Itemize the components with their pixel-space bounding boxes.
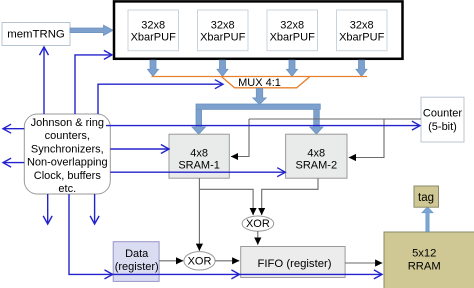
wire: data register to XOR X2 xyxy=(159,260,183,262)
svg-text:SRAM-2: SRAM-2 xyxy=(296,159,338,171)
svg-text:counters,: counters, xyxy=(45,130,90,142)
svg-text:XOR: XOR xyxy=(188,256,212,268)
wire: johnson to XbarPUF array xyxy=(75,55,112,114)
svg-text:etc.: etc. xyxy=(58,183,76,195)
XbarPUF U2 xyxy=(198,10,249,51)
wire: johnson down output A xyxy=(47,194,49,224)
svg-text:XbarPUF: XbarPUF xyxy=(131,31,177,43)
svg-text:XbarPUF: XbarPUF xyxy=(200,31,246,43)
SRAM-2 box xyxy=(286,134,347,178)
svg-text:Clock, buffers: Clock, buffers xyxy=(34,170,102,182)
svg-text:XOR: XOR xyxy=(246,218,270,230)
svg-text:Synchronizers,: Synchronizers, xyxy=(31,143,104,155)
wire: thick arrow XbarPUF U3 to MUX xyxy=(287,60,298,76)
wire: FIFO to RRAM xyxy=(345,262,382,264)
memTRNG box xyxy=(2,23,70,46)
wire: XOR X2 to FIFO xyxy=(215,260,239,262)
FIFO register box xyxy=(241,247,345,278)
svg-text:4x8: 4x8 xyxy=(307,148,325,160)
wire: SRAM-1 to XOR X2 xyxy=(198,178,200,251)
svg-text:(5-bit): (5-bit) xyxy=(428,121,457,133)
wire: SRAM-2 to XOR X1 xyxy=(262,178,318,215)
wire: johnson to SRAM-2 xyxy=(110,171,285,173)
wire: johnson to counter xyxy=(106,125,420,127)
svg-text:Data: Data xyxy=(125,248,149,260)
svg-text:32x8: 32x8 xyxy=(211,20,235,32)
wire: thick arrow XbarPUF U2 to MUX xyxy=(217,60,228,76)
wire: johnson bottom bus to data/fifo/rram xyxy=(69,194,382,274)
wire: thick arrow MUX output to distribution bar xyxy=(253,88,266,104)
data register box xyxy=(113,242,159,282)
wire: thick arrow bar to SRAM-1 xyxy=(192,109,205,134)
XbarPUF array outer box xyxy=(114,1,403,58)
svg-text:32x8: 32x8 xyxy=(141,20,165,32)
wire: johnson to MUX select xyxy=(98,84,223,114)
svg-text:Non-overlapping: Non-overlapping xyxy=(27,157,108,169)
svg-text:5x12: 5x12 xyxy=(412,248,436,260)
wire: thick arrow RRAM to tag xyxy=(422,207,433,232)
XbarPUF U3 xyxy=(267,10,318,51)
XOR gate X2 xyxy=(184,252,215,270)
mux MUX 4:1 xyxy=(152,77,368,89)
wire: arrowhead into FIFO xyxy=(231,270,239,279)
wire: johnson to memTRNG xyxy=(43,47,45,114)
XOR gate X1 xyxy=(242,216,274,231)
wire: thick distribution bar xyxy=(196,104,320,109)
wire: johnson output left B xyxy=(3,162,24,164)
johnson clock-generator box xyxy=(24,114,110,195)
svg-text:SRAM-1: SRAM-1 xyxy=(178,159,220,171)
svg-text:(register): (register) xyxy=(115,261,159,273)
counter box Counter (5-bit) xyxy=(421,97,464,142)
XbarPUF U1 xyxy=(128,10,179,51)
svg-text:XbarPUF: XbarPUF xyxy=(270,31,316,43)
svg-text:MUX 4:1: MUX 4:1 xyxy=(238,77,281,89)
svg-text:Johnson & ring: Johnson & ring xyxy=(31,117,104,129)
XbarPUF U4 xyxy=(337,10,388,51)
wire: counter feedback to SRAM-1 xyxy=(231,119,249,157)
svg-text:RRAM: RRAM xyxy=(408,261,441,273)
wire: johnson down output B xyxy=(94,194,96,224)
wire: thick arrow XbarPUF U4 to MUX xyxy=(356,60,367,76)
wire: XOR X1 to FIFO xyxy=(257,231,259,245)
svg-text:4x8: 4x8 xyxy=(190,148,208,160)
svg-text:XbarPUF: XbarPUF xyxy=(339,31,385,43)
svg-text:Counter: Counter xyxy=(423,107,462,119)
wire: arrowhead into data register xyxy=(105,270,113,279)
svg-text:memTRNG: memTRNG xyxy=(7,29,65,41)
svg-text:tag: tag xyxy=(418,192,434,204)
wire: thick arrow bar to SRAM-2 xyxy=(310,109,323,134)
svg-text:FIFO (register): FIFO (register) xyxy=(257,258,331,270)
wire: thick arrow memTRNG to XbarPUF array xyxy=(70,25,113,35)
wire: SRAM-1 branch to XOR X1 xyxy=(199,189,253,215)
wire: thick arrow XbarPUF U1 to MUX xyxy=(148,60,159,76)
wire: johnson to SRAM-1 xyxy=(110,148,169,150)
wire: counter feedback to SRAM-2 xyxy=(349,119,384,158)
svg-text:32x8: 32x8 xyxy=(280,20,304,32)
SRAM-1 box xyxy=(169,134,229,178)
wire: johnson output left A xyxy=(3,128,24,130)
RRAM box xyxy=(384,232,474,288)
tag box xyxy=(414,186,439,207)
wire: counter address feedback trunk xyxy=(249,118,421,120)
svg-text:32x8: 32x8 xyxy=(350,20,374,32)
